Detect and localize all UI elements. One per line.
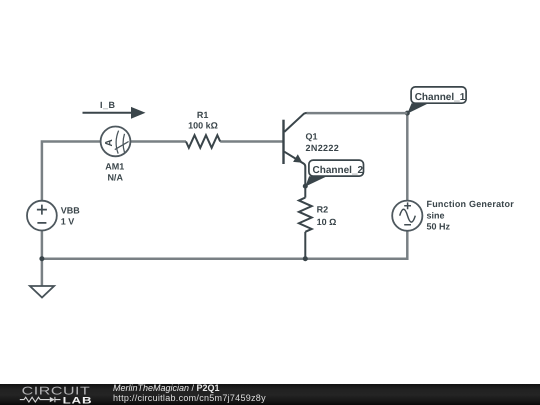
wire	[42, 231, 407, 259]
wire	[304, 232, 306, 259]
resistor R2	[299, 198, 312, 232]
svg-text:1 V: 1 V	[61, 217, 75, 227]
label Q1 2N2222	[306, 131, 340, 153]
svg-text:Function Generator: Function Generator	[427, 199, 515, 209]
svg-text:AM1: AM1	[105, 162, 124, 172]
wire	[220, 140, 283, 143]
svg-text:Channel_1: Channel_1	[415, 92, 466, 103]
voltage source VBB	[27, 201, 57, 231]
node Channel_2	[305, 160, 363, 186]
node junction	[303, 256, 308, 261]
wire	[130, 140, 186, 143]
current arrow I_B	[83, 107, 146, 119]
logo CircuitLab	[0, 384, 110, 405]
svg-text:N/A: N/A	[107, 173, 123, 183]
svg-text:2N2222: 2N2222	[306, 143, 340, 153]
svg-text:Channel_2: Channel_2	[313, 165, 364, 176]
footer text	[113, 384, 413, 403]
node Channel_1	[407, 87, 466, 114]
wire	[304, 186, 306, 198]
label AM1 N/A	[105, 162, 124, 183]
wire	[41, 259, 44, 286]
svg-text:50 Hz: 50 Hz	[427, 222, 451, 232]
node junction	[405, 111, 410, 116]
ammeter AM1	[101, 126, 131, 156]
wire	[406, 113, 409, 201]
resistor R1	[186, 135, 220, 148]
svg-text:I_B: I_B	[100, 100, 116, 110]
wire	[42, 142, 101, 201]
node junction	[39, 256, 44, 261]
svg-text:R2: R2	[317, 205, 329, 215]
footer bar	[0, 384, 540, 405]
svg-text:100 kΩ: 100 kΩ	[188, 121, 218, 131]
svg-text:Q1: Q1	[306, 131, 318, 141]
svg-text:LAB: LAB	[63, 395, 93, 405]
wire	[307, 112, 408, 115]
svg-text:VBB: VBB	[61, 206, 81, 216]
svg-text:A: A	[104, 139, 115, 146]
label R1 100 kOhm	[188, 110, 218, 131]
node junction	[303, 184, 308, 189]
label VBB 1 V	[61, 206, 81, 227]
svg-text:10 Ω: 10 Ω	[317, 217, 337, 227]
label R2 10 Ohm	[317, 205, 337, 228]
svg-text:sine: sine	[427, 210, 445, 220]
wire	[41, 231, 44, 259]
function generator V1	[392, 201, 422, 231]
svg-text:R1: R1	[197, 110, 209, 120]
transistor Q1	[284, 113, 308, 186]
label Function Generator sine 50 Hz	[427, 199, 515, 232]
ground	[30, 286, 54, 298]
